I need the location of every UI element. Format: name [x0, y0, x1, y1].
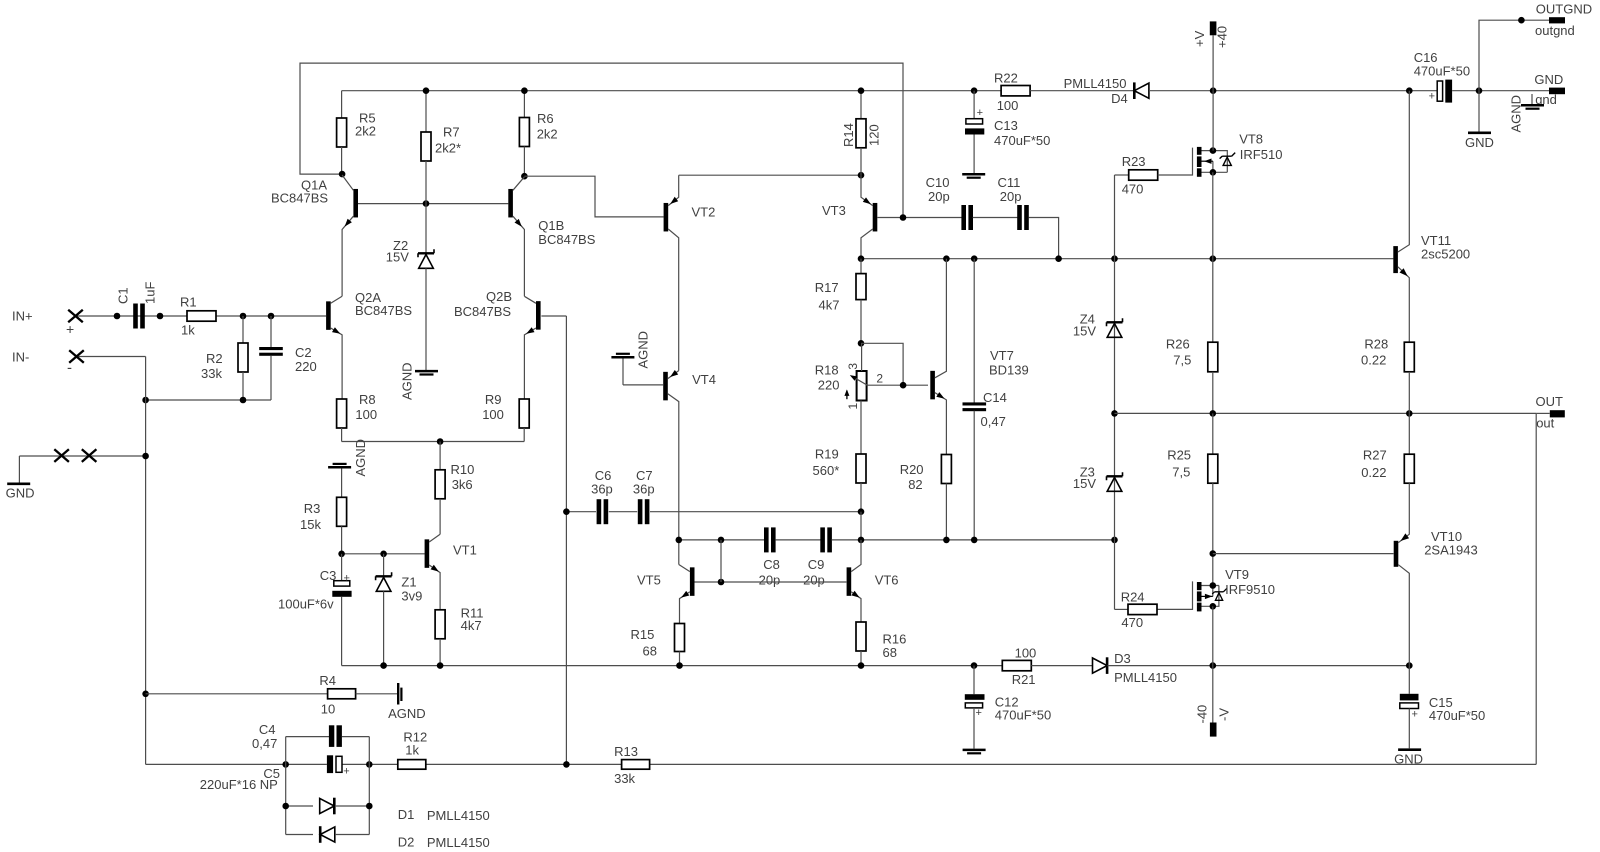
svg-text:470uF*50: 470uF*50: [995, 708, 1051, 723]
node: R7 top on rail: [423, 87, 430, 94]
svg-text:BD139: BD139: [989, 363, 1029, 378]
wire: GND input row: [19, 455, 145, 457]
transistor VT9 IRF9510 (P-MOSFET): [1157, 581, 1193, 609]
svg-text:BC847BS: BC847BS: [454, 304, 511, 319]
node: VT8 source: [1210, 169, 1217, 176]
svg-text:R19: R19: [815, 447, 839, 462]
resistor R20 82: [941, 455, 951, 484]
svg-text:36p: 36p: [591, 482, 613, 497]
diode D2 PMLL4150: [286, 834, 313, 836]
ground GND (input): [18, 456, 20, 483]
svg-text:120: 120: [867, 124, 882, 146]
wire: VT9 source to -V rail: [1212, 606, 1214, 722]
ground (C13): [962, 173, 985, 176]
svg-text:AGND: AGND: [636, 331, 651, 369]
svg-text:0,47: 0,47: [252, 736, 277, 751]
transistor Q1A BC847BS: [353, 189, 358, 218]
resistor R15 68: [675, 624, 685, 652]
capacitor C2 220: [270, 316, 272, 347]
svg-text:15V: 15V: [386, 250, 409, 265]
node: Z4 line top: [1111, 255, 1118, 262]
ground AGND (gnd pad): [1531, 94, 1533, 104]
zener Z1 3v9: [383, 554, 385, 577]
svg-text:IRF510: IRF510: [1240, 147, 1283, 162]
svg-text:33k: 33k: [201, 366, 222, 381]
node: Z1 top: [380, 551, 387, 558]
node: Q1A collector node: [339, 171, 346, 178]
wire: C4/C5/D1/D2 left bus: [285, 737, 287, 835]
svg-text:1uF: 1uF: [143, 282, 158, 304]
svg-text:IN-: IN-: [12, 350, 29, 365]
svg-text:R3: R3: [304, 501, 321, 516]
wire: lower VAS line y=539.9: [679, 539, 765, 541]
svg-text:OUT: OUT: [1536, 394, 1564, 409]
node: R1/R2 junction: [240, 313, 247, 320]
wire: VT10 base line: [1213, 553, 1394, 555]
svg-text:BC847BS: BC847BS: [355, 303, 412, 318]
wire: R8/R9 common emitter-degeneration bottom: [342, 441, 525, 443]
svg-text:R2: R2: [206, 351, 223, 366]
svg-text:C10: C10: [926, 175, 950, 190]
node: C16/VT11 rail junction: [1406, 87, 1413, 94]
svg-text:R25: R25: [1167, 447, 1191, 462]
svg-text:220uF*16 NP: 220uF*16 NP: [200, 777, 278, 792]
wire: VT3 base to C10 row: [877, 217, 961, 219]
power +V pad: [1210, 21, 1217, 35]
svg-text:R18: R18: [815, 363, 839, 378]
svg-text:+: +: [66, 321, 74, 337]
svg-text:R8: R8: [359, 392, 376, 407]
svg-text:PMLL4150: PMLL4150: [427, 808, 490, 823]
svg-text:-V: -V: [1217, 708, 1232, 721]
transistor VT3 (mirrored): [873, 203, 878, 232]
svg-text:VT5: VT5: [637, 573, 661, 588]
potentiometer R18 220: [857, 371, 867, 401]
node: C14 bottom: [971, 537, 978, 544]
transistor VT11 2sc5200: [1393, 246, 1398, 273]
capacitor C15 470uF*50: [1408, 666, 1410, 694]
wire: C10-C11 link: [973, 217, 1018, 219]
node: -V junction: [1210, 662, 1217, 669]
svg-text:VT6: VT6: [875, 573, 899, 588]
resistor R11 4k7: [435, 610, 445, 639]
wire: C6/C7 lag compensation row: [566, 511, 596, 513]
svg-text:100: 100: [997, 98, 1019, 113]
svg-text:R24: R24: [1121, 589, 1145, 604]
node: VT3 base / top loop: [900, 214, 907, 221]
svg-text:R9: R9: [485, 392, 502, 407]
svg-text:C9: C9: [808, 557, 825, 572]
svg-text:220: 220: [818, 378, 840, 393]
svg-text:AGND: AGND: [1509, 95, 1524, 133]
svg-text:outgnd: outgnd: [1535, 23, 1575, 38]
input X mark IN-: [69, 350, 84, 363]
svg-text:AGND: AGND: [388, 706, 426, 721]
svg-text:2: 2: [876, 371, 883, 385]
capacitor C13 470uF*50: [973, 91, 975, 119]
svg-text:Q2B: Q2B: [486, 289, 512, 304]
wire: VT1 base line: [342, 553, 425, 555]
node: R20 bottom: [943, 537, 950, 544]
node: R2 bottom: [240, 397, 247, 404]
resistor R25 7,5: [1212, 413, 1214, 454]
svg-text:470uF*50: 470uF*50: [1414, 64, 1470, 79]
resistor R12 1k: [398, 760, 426, 770]
svg-text:VT1: VT1: [453, 543, 477, 558]
node: VT5 collector line: [676, 537, 683, 544]
svg-text:0.22: 0.22: [1361, 465, 1386, 480]
zener Z2 15V: [425, 204, 427, 253]
svg-text:OUTGND: OUTGND: [1536, 2, 1592, 17]
svg-text:GND: GND: [1534, 72, 1563, 87]
node: R10 top: [437, 438, 444, 445]
wire: C4/C5/D1/D2 right bus: [368, 737, 370, 835]
node: VT9 drain: [1210, 582, 1217, 589]
node: OUT/R28: [1406, 410, 1413, 417]
svg-text:C14: C14: [983, 390, 1007, 405]
wire: wiper link to VT7 base: [861, 343, 903, 385]
node: feedback vertical on rail: [563, 761, 570, 768]
svg-text:3v9: 3v9: [401, 589, 422, 604]
svg-text:+: +: [976, 707, 982, 719]
node: Z1 bottom: [380, 662, 387, 669]
svg-text:R6: R6: [537, 111, 554, 126]
node: D1 left: [282, 803, 289, 810]
svg-text:470uF*50: 470uF*50: [994, 133, 1050, 148]
svg-text:560*: 560*: [813, 463, 840, 478]
diode D4 PMLL4150 (pointing left): [1134, 83, 1149, 98]
transistor VT2: [664, 203, 669, 232]
power -V pad: [1210, 723, 1217, 737]
resistor R2 33k: [242, 316, 244, 343]
svg-text:3: 3: [846, 363, 860, 370]
wire: +V rail (y=90.7) left part: [342, 90, 1002, 92]
svg-text:0,47: 0,47: [981, 414, 1006, 429]
wire: R2/C2 bottom to left vertical: [146, 399, 271, 401]
svg-text:1: 1: [846, 403, 860, 410]
transistor Q2B BC847BS: [536, 301, 541, 330]
svg-text:R14: R14: [841, 123, 856, 147]
capacitor C6 36p: [597, 499, 602, 524]
svg-text:C13: C13: [994, 118, 1018, 133]
node: R19/C7 column: [858, 537, 865, 544]
wire: VT5/VT6 base line: [695, 581, 847, 583]
diode D1 PMLL4150: [286, 805, 313, 807]
resistor R17 4k7: [860, 259, 862, 274]
svg-text:2k2: 2k2: [537, 127, 558, 142]
svg-text:D1: D1: [398, 807, 415, 822]
svg-text:R20: R20: [900, 462, 924, 477]
ground AGND (VT4 base): [622, 358, 624, 385]
node: Q1B collector node: [521, 173, 528, 180]
wire: top loop from Q1A collector node: [300, 63, 903, 217]
node: wiper junction: [900, 382, 907, 389]
wire: R18 pin1 to R19: [860, 401, 862, 455]
svg-text:3k6: 3k6: [452, 477, 473, 492]
resistor R24 470: [1114, 540, 1116, 610]
svg-text:7,5: 7,5: [1172, 464, 1190, 479]
node: R16 bottom: [858, 662, 865, 669]
node: R4 tap: [142, 691, 149, 698]
svg-text:R23: R23: [1122, 154, 1146, 169]
ground (C12): [963, 749, 986, 752]
svg-text:2k2*: 2k2*: [435, 141, 461, 156]
wire: C11 to VAS output node: [1029, 218, 1059, 259]
wire: OUT rail: [1115, 412, 1537, 414]
svg-text:100: 100: [355, 407, 377, 422]
wire: Q1B collector to VT2 base: [524, 176, 663, 217]
node: x=1213 / VT11 base: [1210, 255, 1217, 262]
ground AGND (R3 top): [328, 466, 351, 469]
node: C13 top: [971, 87, 978, 94]
svg-text:68: 68: [883, 645, 897, 660]
svg-text:R7: R7: [443, 125, 460, 140]
wire: IN- input: [77, 356, 146, 358]
resistor R14 120 (vertical): [860, 91, 862, 119]
connector pad GND/gnd: [1549, 88, 1565, 95]
svg-text:IN+: IN+: [12, 309, 33, 324]
svg-text:100uF*6v: 100uF*6v: [278, 597, 334, 612]
svg-text:1k: 1k: [405, 742, 419, 757]
node: C4 block left bus on rail: [282, 761, 289, 768]
transistor VT4: [663, 372, 668, 401]
svg-text:1k: 1k: [181, 323, 195, 338]
node: R19 bottom / C7: [858, 508, 865, 515]
node: OUT/R26: [1210, 410, 1217, 417]
node: OUTGND branch: [1476, 87, 1483, 94]
ground GND (OUTGND branch): [1478, 91, 1480, 132]
svg-text:4k7: 4k7: [461, 618, 482, 633]
wire: wiper to VT7 base: [867, 384, 928, 386]
node: C11 return: [1055, 255, 1062, 262]
node: OUT rail / clamp line: [1111, 410, 1118, 417]
resistor R10 3k6: [439, 442, 441, 470]
node: C1 left junction: [114, 313, 121, 320]
capacitor C7 36p: [638, 499, 643, 524]
node: VT10 base tap: [1210, 550, 1217, 557]
resistor R9 100: [519, 399, 529, 428]
node: C15 top / VT10 collector: [1406, 662, 1413, 669]
transistor Q1B BC847BS: [508, 189, 513, 218]
capacitor C9 20p: [820, 527, 825, 552]
node: VT5/VT6 base tie: [718, 537, 725, 544]
wire: x=1213 +V to VT8 drain: [1212, 91, 1214, 151]
svg-text:2SA1943: 2SA1943: [1424, 543, 1478, 558]
svg-text:100: 100: [1015, 646, 1037, 661]
svg-text:VT9: VT9: [1225, 567, 1249, 582]
node: GND row to left vertical: [142, 453, 149, 460]
svg-text:PMLL4150: PMLL4150: [1064, 76, 1127, 91]
svg-text:15k: 15k: [300, 517, 321, 532]
resistor R19 560*: [856, 454, 866, 483]
node: VT3 emitter / R14: [858, 172, 865, 179]
svg-text:33k: 33k: [614, 771, 635, 786]
svg-text:VT2: VT2: [692, 205, 716, 220]
svg-text:PMLL4150: PMLL4150: [427, 835, 490, 850]
node: C12 top: [971, 662, 978, 669]
svg-text:Z1: Z1: [401, 575, 416, 590]
diode D3 PMLL4150: [1093, 658, 1108, 673]
node: C3 top: [338, 551, 345, 558]
svg-text:BC847BS: BC847BS: [271, 191, 328, 206]
ground AGND (R4): [397, 683, 399, 705]
svg-text:-40: -40: [1195, 705, 1210, 724]
svg-text:+40: +40: [1215, 26, 1230, 48]
svg-text:AGND: AGND: [400, 362, 415, 400]
svg-text:R17: R17: [815, 280, 839, 295]
input X mark GND b: [82, 449, 97, 462]
svg-text:D4: D4: [1111, 91, 1128, 106]
resistor R8 100: [337, 399, 347, 428]
wire: OUTGND branch up: [1479, 20, 1549, 91]
input X mark IN+: [68, 310, 83, 323]
transistor VT8 IRF510 (N-MOSFET): [1158, 148, 1193, 175]
svg-text:+: +: [1412, 709, 1418, 721]
svg-text:PMLL4150: PMLL4150: [1114, 670, 1177, 685]
svg-text:R1: R1: [180, 295, 197, 310]
svg-text:C3: C3: [320, 568, 337, 583]
svg-text:D3: D3: [1114, 651, 1131, 666]
node: VT3 collector: [858, 255, 865, 262]
svg-text:R13: R13: [614, 744, 638, 759]
node: R6 top on rail: [521, 87, 528, 94]
ground AGND (Z2): [415, 370, 438, 373]
svg-text:R4: R4: [319, 673, 336, 688]
connector pad OUT: [1550, 410, 1565, 417]
node: outgnd pad stub: [1518, 17, 1525, 24]
svg-text:+: +: [977, 107, 983, 119]
node: left vertical at y400: [142, 397, 149, 404]
svg-text:R28: R28: [1364, 336, 1388, 351]
svg-text:out: out: [1536, 416, 1554, 431]
svg-text:220: 220: [295, 359, 317, 374]
svg-text:2sc5200: 2sc5200: [1421, 247, 1470, 262]
svg-text:AGND: AGND: [353, 439, 368, 477]
svg-text:BC847BS: BC847BS: [538, 232, 595, 247]
svg-text:4k7: 4k7: [819, 298, 840, 313]
capacitor C4 0,47: [286, 736, 329, 738]
capacitor C14 0,47: [973, 259, 975, 403]
svg-text:VT3: VT3: [822, 203, 846, 218]
svg-text:R22: R22: [994, 71, 1018, 86]
svg-text:C1: C1: [116, 287, 131, 304]
resistor R3 15k: [341, 468, 343, 497]
capacitor C8 20p: [764, 527, 769, 552]
node: R17 bottom / wiper link: [858, 340, 865, 347]
node: Z3 line bottom: [1111, 537, 1118, 544]
svg-text:68: 68: [643, 644, 657, 659]
svg-text:C4: C4: [259, 722, 276, 737]
node: base line / R7-Z2: [423, 200, 430, 207]
svg-text:R26: R26: [1166, 336, 1190, 351]
wire: feedback vertical x=566.4: [565, 316, 567, 764]
wire: negative feed line y=665.6: [342, 665, 1003, 667]
resistor R7 2k2*: [425, 91, 427, 132]
resistor R6 2k2: [523, 91, 525, 118]
node: D1 right: [366, 803, 373, 810]
wire: VT8 source down to VAS node and R26: [1212, 172, 1214, 342]
svg-text:470: 470: [1121, 615, 1143, 630]
svg-text:20p: 20p: [803, 572, 825, 587]
node: VT8 drain: [1210, 147, 1217, 154]
capacitor C16 470uF*50: [1437, 81, 1442, 101]
node: R14 top on rail: [858, 87, 865, 94]
capacitor C10 20p: [961, 205, 966, 230]
transistor VT6: [847, 567, 852, 596]
input X mark GND a: [54, 449, 69, 462]
ground GND (C15): [1398, 748, 1421, 751]
wire: VAS output line y=258.7: [861, 258, 1393, 260]
node: C2 top junction: [268, 313, 275, 320]
svg-text:+V: +V: [1192, 30, 1207, 47]
wire: Q2B base to feedback vertical: [541, 315, 566, 317]
resistor R22 100: [1001, 86, 1030, 96]
capacitor C3 100uF*6v: [341, 554, 343, 581]
transistor Q2A BC847BS: [326, 301, 331, 330]
svg-text:R10: R10: [451, 462, 475, 477]
resistor R23 470: [1129, 170, 1158, 180]
node: base tie vertical: [718, 579, 725, 586]
wire: VT4 base from AGND: [623, 384, 663, 386]
wire: right edge vertical to OUT rail: [1535, 413, 1537, 764]
svg-text:2k2: 2k2: [355, 124, 376, 139]
svg-text:+: +: [343, 766, 349, 778]
wire: main left vertical: [145, 357, 147, 765]
transistor VT1: [425, 539, 430, 568]
wire: common base line Q1A-Q1B: [358, 203, 508, 205]
node: VT9 source: [1210, 603, 1217, 610]
wire: R23 gate feed: [1115, 174, 1129, 176]
svg-text:C8: C8: [763, 557, 780, 572]
svg-text:C2: C2: [295, 345, 312, 360]
zener Z4 15V: [1107, 321, 1123, 323]
svg-text:C11: C11: [998, 175, 1021, 190]
svg-text:-: -: [67, 360, 72, 377]
connector pad OUTGND: [1549, 17, 1565, 23]
svg-text:+: +: [344, 573, 350, 585]
svg-text:15V: 15V: [1073, 324, 1096, 339]
svg-text:VT7: VT7: [990, 348, 1014, 363]
svg-text:36p: 36p: [633, 482, 655, 497]
capacitor C5 220uF*16 NP: [327, 755, 333, 773]
zener Z3 15V: [1107, 475, 1123, 477]
transistor VT5 (mirrored): [690, 567, 695, 596]
svg-text:470: 470: [1122, 182, 1144, 197]
node: C4 block right bus on rail: [366, 761, 373, 768]
svg-text:10: 10: [321, 702, 335, 717]
resistor R26 7,5: [1208, 342, 1218, 372]
svg-text:82: 82: [908, 477, 922, 492]
svg-text:7,5: 7,5: [1173, 352, 1191, 367]
resistor R1 1k: [187, 311, 216, 321]
svg-text:470uF*50: 470uF*50: [1429, 708, 1485, 723]
node: VT7 collector: [943, 255, 950, 262]
svg-text:GND: GND: [6, 486, 35, 501]
svg-text:VT4: VT4: [692, 372, 716, 387]
svg-text:15V: 15V: [1073, 476, 1096, 491]
capacitor C12 470uF*50: [973, 666, 975, 695]
svg-text:+: +: [1429, 90, 1435, 102]
svg-text:D2: D2: [398, 834, 415, 849]
svg-text:R21: R21: [1012, 672, 1036, 687]
svg-text:0.22: 0.22: [1361, 352, 1386, 367]
transistor VT10 2SA1943: [1394, 541, 1399, 567]
resistor R16 68: [856, 622, 866, 651]
svg-text:IRF9510: IRF9510: [1225, 582, 1275, 597]
svg-text:20p: 20p: [928, 189, 950, 204]
node: feedback/C6: [563, 508, 570, 515]
svg-text:GND: GND: [1465, 135, 1494, 150]
